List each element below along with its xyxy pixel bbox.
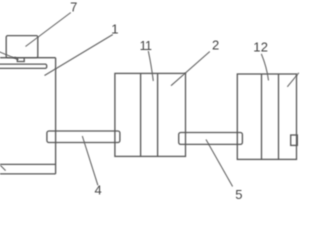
motor box 7 <box>6 36 38 58</box>
tank 1 top edge <box>0 57 56 59</box>
clipped leader at right edge <box>287 73 299 87</box>
svg-text:5: 5 <box>235 187 242 200</box>
right box internal partition line right <box>278 74 280 159</box>
clipped leader at left edge into coupler <box>0 52 18 60</box>
svg-text:4: 4 <box>95 183 102 198</box>
right outlet stub pipe <box>291 135 298 145</box>
pipe 4 <box>47 131 120 143</box>
tank 1 right wall <box>55 58 57 174</box>
leader line 2 <box>171 52 210 86</box>
svg-text:2: 2 <box>212 38 219 53</box>
tank 1 bottom slab outer line <box>0 173 56 175</box>
middle box internal partition line left <box>140 73 142 156</box>
svg-text:1: 1 <box>111 22 118 37</box>
leader line 1 <box>45 35 113 76</box>
lid plate slab <box>0 64 47 68</box>
arrow tick of left leader <box>15 57 19 59</box>
leader line 7 <box>26 13 71 47</box>
leader line 4 <box>82 136 98 185</box>
svg-text:7: 7 <box>70 0 77 14</box>
tank 1 bottom slab inner line <box>0 163 56 165</box>
right box 12 outline <box>237 74 296 159</box>
coupler small box under lid <box>17 58 24 62</box>
middle box 2 outline <box>115 73 186 156</box>
middle box internal partition line right 11 <box>157 73 159 156</box>
svg-text:11: 11 <box>140 39 152 53</box>
right box internal partition line left <box>261 74 263 159</box>
leader line 11 <box>148 51 153 81</box>
pipe 5 <box>179 133 243 145</box>
leader line 12 <box>261 54 268 81</box>
bottom left tick mark <box>0 165 5 170</box>
svg-text:12: 12 <box>253 40 268 55</box>
leader line 5 <box>206 140 233 187</box>
